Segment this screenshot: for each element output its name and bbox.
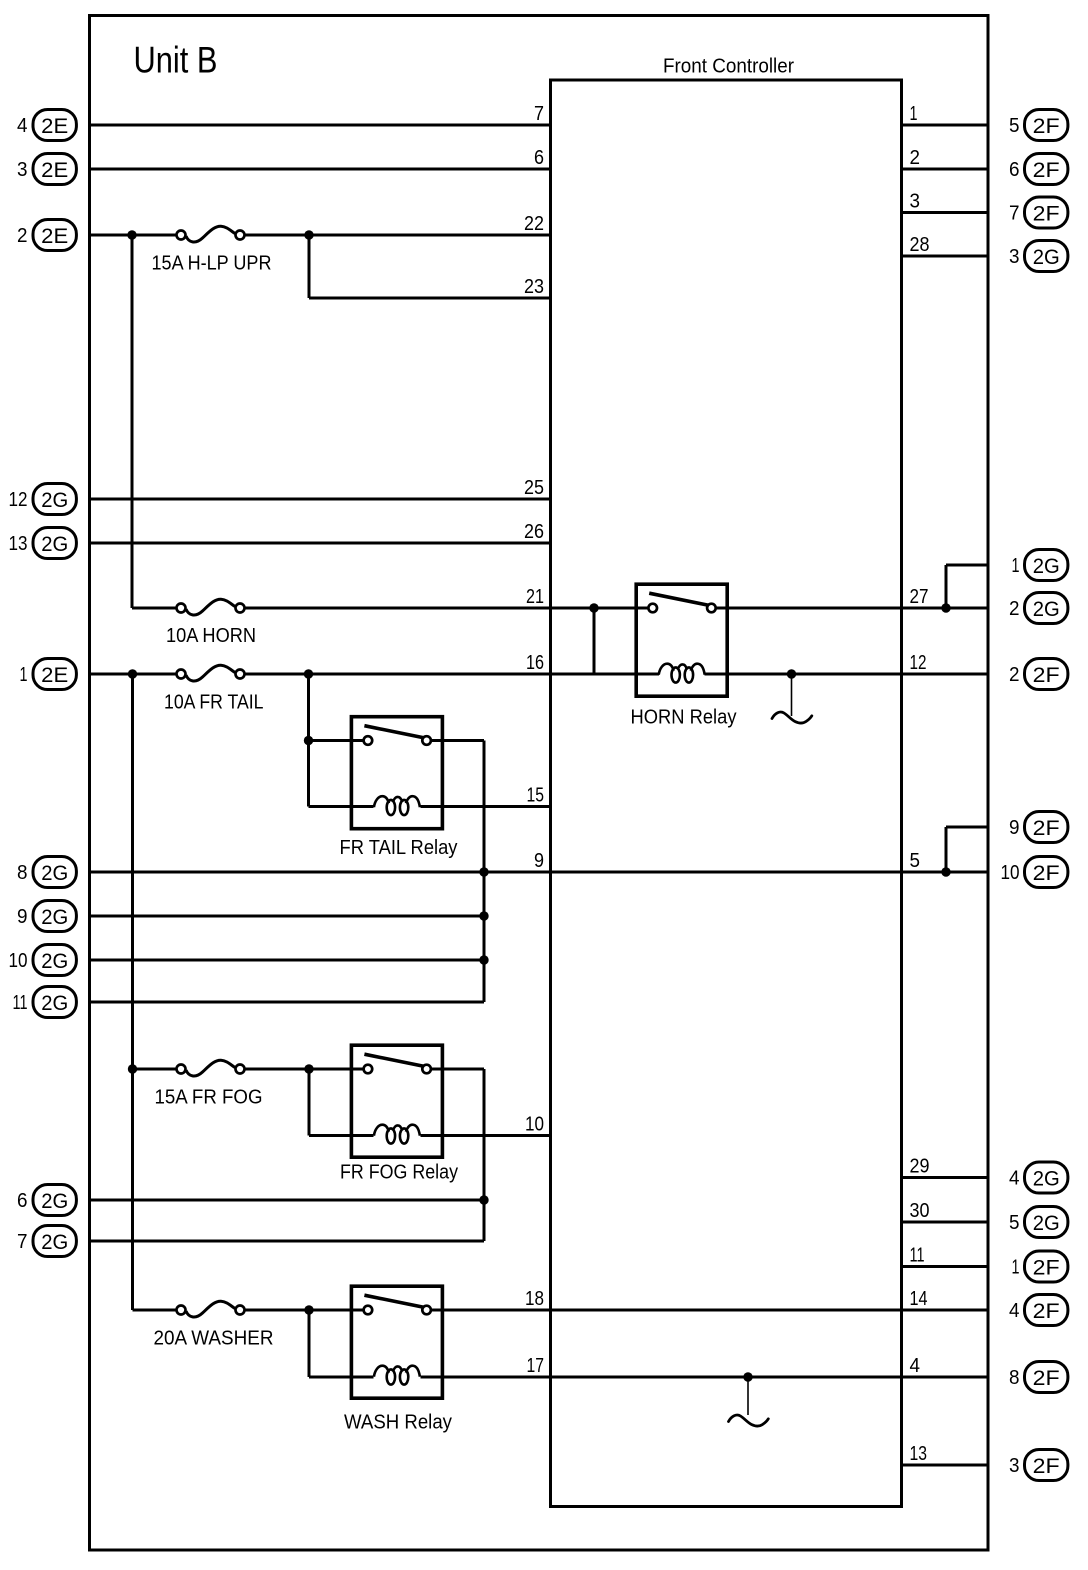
svg-text:2G: 2G: [41, 532, 68, 556]
wire fr-tail coil out to pin15: [421, 805, 551, 808]
svg-text:2: 2: [1009, 663, 1020, 686]
node fog coil tap: [304, 1064, 313, 1073]
svg-text:2F: 2F: [1033, 114, 1060, 138]
connector 8 2G (left): [33, 857, 76, 888]
wire pin1 to 5-2F: [902, 124, 989, 127]
svg-text:17: 17: [527, 1354, 545, 1377]
svg-text:2F: 2F: [1033, 1256, 1060, 1280]
svg-text:6: 6: [534, 146, 544, 169]
wire pin2 to 6-2F: [902, 168, 989, 171]
connector 2 2E (left): [33, 220, 76, 251]
wire pin30 to 5-2G: [902, 1221, 989, 1224]
svg-text:2G: 2G: [1033, 554, 1060, 578]
svg-text:15: 15: [527, 784, 545, 807]
svg-text:29: 29: [910, 1155, 930, 1178]
node fr-tail switch tap: [304, 736, 313, 745]
svg-text:4: 4: [17, 114, 28, 137]
node ground junction pin4 wire: [743, 1372, 752, 1381]
svg-text:10A HORN: 10A HORN: [166, 624, 256, 647]
wire horn coil out to pin12 and 2-2F: [705, 673, 989, 676]
wire horn relay switch out to pin27 and 2-2G: [712, 607, 989, 610]
wire 9-2G: [90, 915, 485, 918]
wire vertical x308 fr-tail relay feed: [307, 674, 310, 807]
connector 13 2G (left): [33, 528, 76, 559]
svg-text:4: 4: [910, 1354, 921, 1377]
wire fuse F4 to fog relay switch: [245, 1068, 369, 1071]
connector 6 2F (right): [1025, 154, 1068, 185]
svg-text:26: 26: [524, 520, 544, 543]
svg-text:22: 22: [524, 212, 544, 235]
wire fog switch out: [427, 1068, 484, 1071]
svg-text:30: 30: [910, 1199, 930, 1222]
wire fr-tail coil feed: [309, 805, 374, 808]
wire 2-2E to fuse F1: [90, 234, 177, 237]
wire fr-fog fuse feed: [133, 1068, 177, 1071]
connector 7 2G (left): [33, 1226, 76, 1257]
wire pin26 to 13-2G: [90, 542, 551, 545]
wire pin7 to 4-2E: [90, 124, 551, 127]
connector 7 2F (right): [1025, 197, 1068, 228]
node on wire22 at x132: [127, 230, 136, 239]
wire fuse F3 to pin16 and horn coil: [245, 673, 660, 676]
connector 4 2E (left): [33, 110, 76, 141]
svg-text:7: 7: [17, 1230, 28, 1253]
svg-text:HORN Relay: HORN Relay: [631, 706, 738, 729]
svg-text:5: 5: [910, 849, 921, 872]
svg-text:3: 3: [910, 190, 921, 213]
relay U5 WASH Relay: [351, 1286, 442, 1398]
svg-text:12: 12: [910, 651, 927, 674]
svg-text:2G: 2G: [1033, 1167, 1060, 1191]
connector 1 2F (right): [1025, 1251, 1068, 1282]
svg-text:1: 1: [910, 102, 918, 125]
svg-text:16: 16: [526, 651, 544, 674]
svg-text:2F: 2F: [1033, 663, 1060, 687]
wire branch to 9-2F: [946, 826, 988, 829]
connector 1 2E (left): [33, 659, 76, 690]
svg-text:2: 2: [910, 146, 921, 169]
relay U2 HORN Relay: [636, 584, 727, 696]
svg-text:9: 9: [534, 849, 544, 872]
wire vertical fr-tail switch out down: [483, 741, 486, 1003]
svg-text:15A FR FOG: 15A FR FOG: [155, 1086, 263, 1109]
svg-text:2G: 2G: [1033, 1211, 1060, 1235]
wire 11-2G: [90, 1001, 485, 1004]
connector 12 2G (left): [33, 484, 76, 515]
node pin27 branch: [941, 603, 950, 612]
svg-text:3: 3: [1009, 245, 1020, 268]
svg-text:13: 13: [9, 532, 28, 555]
wire vertical fog coil feed: [308, 1069, 311, 1136]
svg-text:2G: 2G: [41, 861, 68, 885]
wire fuse F1 to pin22: [245, 234, 551, 237]
svg-text:12: 12: [9, 488, 28, 511]
wire wash coil out to pin17/pin4 and 8-2F: [421, 1376, 989, 1379]
wire vertical x309 to wire23: [308, 235, 311, 298]
node fr-fog fuse feed junction: [128, 1064, 137, 1073]
svg-text:8: 8: [1009, 1366, 1020, 1389]
svg-text:2G: 2G: [41, 1189, 68, 1213]
connector 5 2G (right): [1025, 1207, 1068, 1238]
wire fr-tail switch out: [427, 739, 484, 742]
connector 2 2F (right): [1025, 659, 1068, 690]
node wire 10-2G end: [479, 955, 488, 964]
node 1-2E junction x132: [128, 669, 137, 678]
wire pin13 to 3-2F: [902, 1464, 989, 1467]
ground lead at horn relay: [791, 678, 793, 716]
connector 9 2G (left): [33, 901, 76, 932]
svg-text:10: 10: [525, 1113, 544, 1136]
svg-text:10: 10: [1001, 861, 1020, 884]
wire 6-2G: [90, 1199, 485, 1202]
svg-text:7: 7: [1009, 202, 1020, 225]
svg-text:9: 9: [1009, 816, 1020, 839]
node pin5 branch: [941, 867, 950, 876]
wire vertical x132 down to washer fuse: [131, 674, 134, 1310]
connector 4 2G (right): [1025, 1162, 1068, 1193]
svg-text:2E: 2E: [41, 114, 68, 138]
connector 6 2G (left): [33, 1185, 76, 1216]
wire pin29 to 4-2G: [902, 1176, 989, 1179]
svg-text:2: 2: [1009, 597, 1020, 620]
wire branch up from pin27 wire: [945, 565, 948, 608]
svg-text:11: 11: [13, 991, 28, 1014]
connector 5 2F (right): [1025, 110, 1068, 141]
node wire 9-2G end: [479, 911, 488, 920]
svg-text:FR FOG Relay: FR FOG Relay: [340, 1161, 459, 1184]
svg-text:5: 5: [1009, 1211, 1020, 1234]
svg-text:5: 5: [1009, 114, 1020, 137]
svg-text:3: 3: [17, 158, 28, 181]
svg-text:2F: 2F: [1033, 1299, 1060, 1323]
svg-text:2E: 2E: [41, 663, 68, 687]
svg-text:4: 4: [1009, 1167, 1020, 1190]
svg-text:2F: 2F: [1033, 816, 1060, 840]
wire fuse F5 to wash relay switch: [245, 1309, 369, 1312]
svg-text:Front Controller: Front Controller: [663, 55, 794, 78]
svg-text:20A WASHER: 20A WASHER: [154, 1327, 274, 1350]
wire branch to 1-2G: [946, 564, 988, 567]
svg-text:2G: 2G: [41, 991, 68, 1015]
wire washer fuse feed: [133, 1309, 177, 1312]
svg-text:15A H-LP UPR: 15A H-LP UPR: [152, 252, 272, 275]
svg-text:2F: 2F: [1033, 1454, 1060, 1478]
svg-text:2E: 2E: [41, 158, 68, 182]
wire vertical x132 down to horn fuse: [131, 235, 134, 608]
wire horn-fuse feed: [132, 607, 177, 610]
svg-text:3: 3: [1009, 1454, 1020, 1477]
connector 1 2G (right): [1025, 550, 1068, 581]
svg-text:11: 11: [910, 1244, 925, 1267]
fuse F3 10A FR TAIL: [186, 665, 235, 681]
wire pin25 to 12-2G: [90, 498, 551, 501]
svg-text:2F: 2F: [1033, 861, 1060, 885]
svg-text:1: 1: [1012, 1256, 1020, 1279]
svg-text:1: 1: [20, 663, 28, 686]
svg-text:10A FR TAIL: 10A FR TAIL: [164, 691, 264, 714]
relay U4 FR FOG Relay: [351, 1045, 442, 1157]
svg-text:2F: 2F: [1033, 158, 1060, 182]
svg-text:4: 4: [1009, 1299, 1020, 1322]
svg-text:2G: 2G: [41, 488, 68, 512]
fuse F4 15A FR FOG: [186, 1060, 235, 1076]
svg-text:2: 2: [17, 224, 28, 247]
wire fog coil out to pin10: [421, 1134, 551, 1137]
wire 8-2G to pin9 to pin5 wire: [90, 871, 989, 874]
wire pin11 to 1-2F: [902, 1265, 989, 1268]
node wire 6-2G end: [479, 1195, 488, 1204]
connector 2 2G (right): [1025, 593, 1068, 624]
svg-text:1: 1: [1012, 554, 1020, 577]
wire pin23: [309, 297, 551, 300]
wire fuse F2 to horn relay switch (pin21): [245, 607, 654, 610]
connector 9 2F (right): [1025, 812, 1068, 843]
wire fr-tail switch feed: [309, 739, 368, 742]
node horn ground junction: [787, 669, 796, 678]
wire fog coil feed: [309, 1134, 374, 1137]
relay U3 FR TAIL Relay: [351, 717, 442, 829]
node horn coil tap: [589, 603, 598, 612]
svg-text:2G: 2G: [41, 905, 68, 929]
svg-text:13: 13: [910, 1442, 928, 1465]
svg-text:6: 6: [17, 1189, 28, 1212]
svg-text:7: 7: [534, 102, 544, 125]
svg-text:14: 14: [910, 1287, 928, 1310]
svg-text:18: 18: [525, 1287, 544, 1310]
node on wire9 at x484: [479, 867, 488, 876]
connector 10 2F (right): [1025, 857, 1068, 888]
svg-text:23: 23: [524, 275, 544, 298]
svg-text:10: 10: [9, 949, 28, 972]
svg-text:2E: 2E: [41, 224, 68, 248]
fuse F5 20A WASHER: [186, 1301, 235, 1317]
wire pin6 to 3-2E: [90, 168, 551, 171]
fuse F2 10A HORN: [186, 599, 235, 615]
svg-text:2G: 2G: [41, 949, 68, 973]
connector 3 2E (left): [33, 154, 76, 185]
svg-text:25: 25: [524, 476, 544, 499]
ground symbol at horn relay: [772, 712, 812, 723]
svg-text:2G: 2G: [1033, 597, 1060, 621]
node on wire22 at x309: [304, 230, 313, 239]
connector 4 2F (right): [1025, 1295, 1068, 1326]
svg-text:28: 28: [910, 233, 930, 256]
wire 1-2E to fuse F3: [90, 673, 177, 676]
node fr-tail tap x308: [304, 669, 313, 678]
svg-text:27: 27: [910, 585, 929, 608]
svg-text:2F: 2F: [1033, 202, 1060, 226]
svg-text:2G: 2G: [1033, 245, 1060, 269]
fuse F1 15A H-LP UPR: [186, 226, 235, 242]
svg-text:WASH Relay: WASH Relay: [344, 1411, 453, 1434]
svg-text:21: 21: [526, 585, 544, 608]
wire branch up from pin5 wire: [945, 827, 948, 872]
ground symbol at pin4 wire: [729, 1415, 769, 1426]
svg-text:8: 8: [17, 861, 28, 884]
Front Controller box U1: [551, 80, 902, 1507]
svg-text:2G: 2G: [41, 1230, 68, 1254]
connector 8 2F (right): [1025, 1362, 1068, 1393]
wire vertical horn coil feed: [593, 608, 596, 674]
wire 7-2G: [90, 1240, 485, 1243]
ground lead at pin4 wire: [747, 1381, 749, 1415]
node wash coil tap: [304, 1305, 313, 1314]
wire vertical fog switch out down: [483, 1069, 486, 1241]
wire pin28 to 3-2G: [902, 255, 989, 258]
connector 3 2G (right): [1025, 241, 1068, 272]
svg-text:9: 9: [17, 905, 28, 928]
svg-text:6: 6: [1009, 158, 1020, 181]
wire 10-2G: [90, 959, 485, 962]
connector 11 2G (left): [33, 987, 76, 1018]
svg-text:2F: 2F: [1033, 1366, 1060, 1390]
wire wash coil feed: [309, 1376, 374, 1379]
wire pin3 to 7-2F: [902, 211, 989, 214]
connector 3 2F (right): [1025, 1450, 1068, 1481]
svg-text:FR TAIL Relay: FR TAIL Relay: [340, 836, 459, 859]
svg-text:Unit B: Unit B: [134, 40, 218, 81]
wire vertical wash coil feed: [308, 1310, 311, 1377]
wire wash switch out to pin18/pin14 and 4-2F: [427, 1309, 988, 1312]
connector 10 2G (left): [33, 945, 76, 976]
